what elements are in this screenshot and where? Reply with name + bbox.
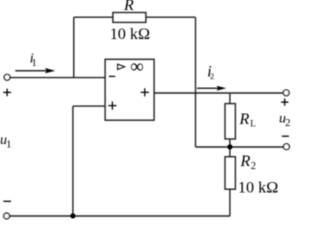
svg-text:1: 1: [6, 139, 12, 151]
svg-text:R: R: [240, 153, 251, 170]
svg-text:2: 2: [251, 161, 256, 172]
svg-text:10 kΩ: 10 kΩ: [238, 178, 278, 196]
svg-text:2: 2: [285, 117, 291, 129]
svg-text:2: 2: [210, 71, 214, 81]
svg-text:1: 1: [32, 58, 37, 69]
svg-text:∞: ∞: [130, 57, 144, 78]
svg-text:10 kΩ: 10 kΩ: [110, 25, 150, 43]
svg-text:L: L: [250, 119, 256, 129]
svg-text:R: R: [239, 111, 250, 128]
svg-text:R: R: [123, 0, 134, 14]
